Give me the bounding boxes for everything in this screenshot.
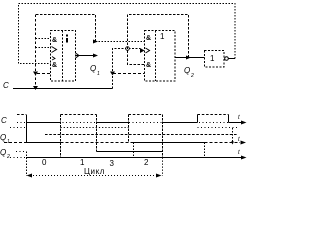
- waveform Q1 high segments: [10, 127, 26, 129]
- waveform C low segments solid: [26, 122, 241, 124]
- U2 dynamic input wedge: [140, 48, 145, 53]
- node hop circle: [126, 47, 130, 51]
- svg-text:&: &: [52, 62, 57, 69]
- wire Q2 output: [175, 57, 205, 59]
- wire FF1 clock input: [36, 47, 51, 49]
- arrow end of Q1 low line: [241, 141, 247, 145]
- junction node Q1 upper: [93, 40, 98, 44]
- U2 column divider: [155, 31, 157, 82]
- svg-text:&: &: [146, 62, 151, 69]
- wire Q1 output: [76, 55, 96, 57]
- axis Q2 dotted lead: [10, 157, 26, 159]
- junction arrow at C branch FF2: [110, 72, 115, 76]
- wire FF1 lower input dashed: [37, 73, 51, 75]
- svg-text:C: C: [3, 81, 9, 90]
- axis Q2 arrow: [241, 156, 247, 160]
- waveform Q2 high lead dots: [16, 151, 26, 153]
- svg-text:&: &: [52, 37, 57, 44]
- junction arrow at C branch FF1: [33, 72, 38, 76]
- flip-flop U1 box: [51, 31, 76, 82]
- svg-text:2: 2: [144, 158, 149, 167]
- timing verticals: [27, 115, 233, 177]
- svg-text:t: t: [238, 150, 240, 156]
- axis Q1 dashed: [45, 134, 237, 136]
- wire FF2 lower input dashed: [113, 73, 145, 75]
- junction Q2 node: [186, 56, 191, 60]
- wire FF2 feedback loop: [128, 15, 189, 65]
- svg-text:2: 2: [190, 73, 194, 79]
- junction node Q1 lower: [93, 54, 98, 58]
- U1 small input tick: [52, 57, 55, 61]
- U1 dynamic input: [52, 47, 57, 53]
- wire inverter out: [229, 58, 236, 60]
- svg-text:C: C: [1, 116, 7, 125]
- axis C dotted: [17, 122, 240, 124]
- svg-text:2: 2: [6, 154, 10, 160]
- waveform Q1 low line: [4, 142, 240, 144]
- flip-flop U2 box: [145, 31, 176, 82]
- svg-text:Q: Q: [0, 148, 6, 157]
- svg-text:Q: Q: [184, 66, 190, 75]
- waveform C high segments: [17, 114, 229, 116]
- svg-text:0: 0: [42, 158, 47, 167]
- wire FF1 S input: [36, 38, 51, 40]
- wire C vertical to FF1: [35, 15, 37, 89]
- inverter U3 box: [205, 51, 225, 68]
- svg-text:1: 1: [80, 158, 85, 167]
- svg-text:Цикл: Цикл: [84, 167, 105, 176]
- node blob on x232: [231, 142, 234, 145]
- svg-text:1: 1: [160, 32, 165, 41]
- svg-text:&: &: [146, 35, 151, 42]
- wire C up to FF2: [113, 49, 141, 89]
- U1 output tick: [76, 53, 80, 58]
- wire Q1 to FF2 input: [96, 41, 145, 43]
- U1 label i: [66, 35, 68, 37]
- cycle arrow right: [156, 174, 162, 178]
- U1 column divider: [62, 31, 64, 82]
- wire FF1 feedback loop: [36, 15, 96, 42]
- svg-text:1: 1: [97, 71, 100, 77]
- svg-text:3: 3: [110, 159, 115, 168]
- junction at C line: [33, 86, 38, 90]
- cycle arrow left: [27, 174, 33, 178]
- axis C arrow: [241, 121, 247, 125]
- wire outer feedback top: [19, 4, 236, 64]
- waveform Q2 base solid: [26, 157, 241, 159]
- svg-text:Q: Q: [90, 64, 96, 73]
- svg-text:t: t: [238, 115, 240, 121]
- U3 output inversion circle: [225, 57, 229, 61]
- waveform Q2 high segment: [97, 151, 163, 153]
- svg-text:1: 1: [210, 54, 215, 63]
- node C clock line: [13, 88, 113, 90]
- cycle dimension line: [30, 175, 158, 177]
- svg-text:Q: Q: [0, 133, 6, 142]
